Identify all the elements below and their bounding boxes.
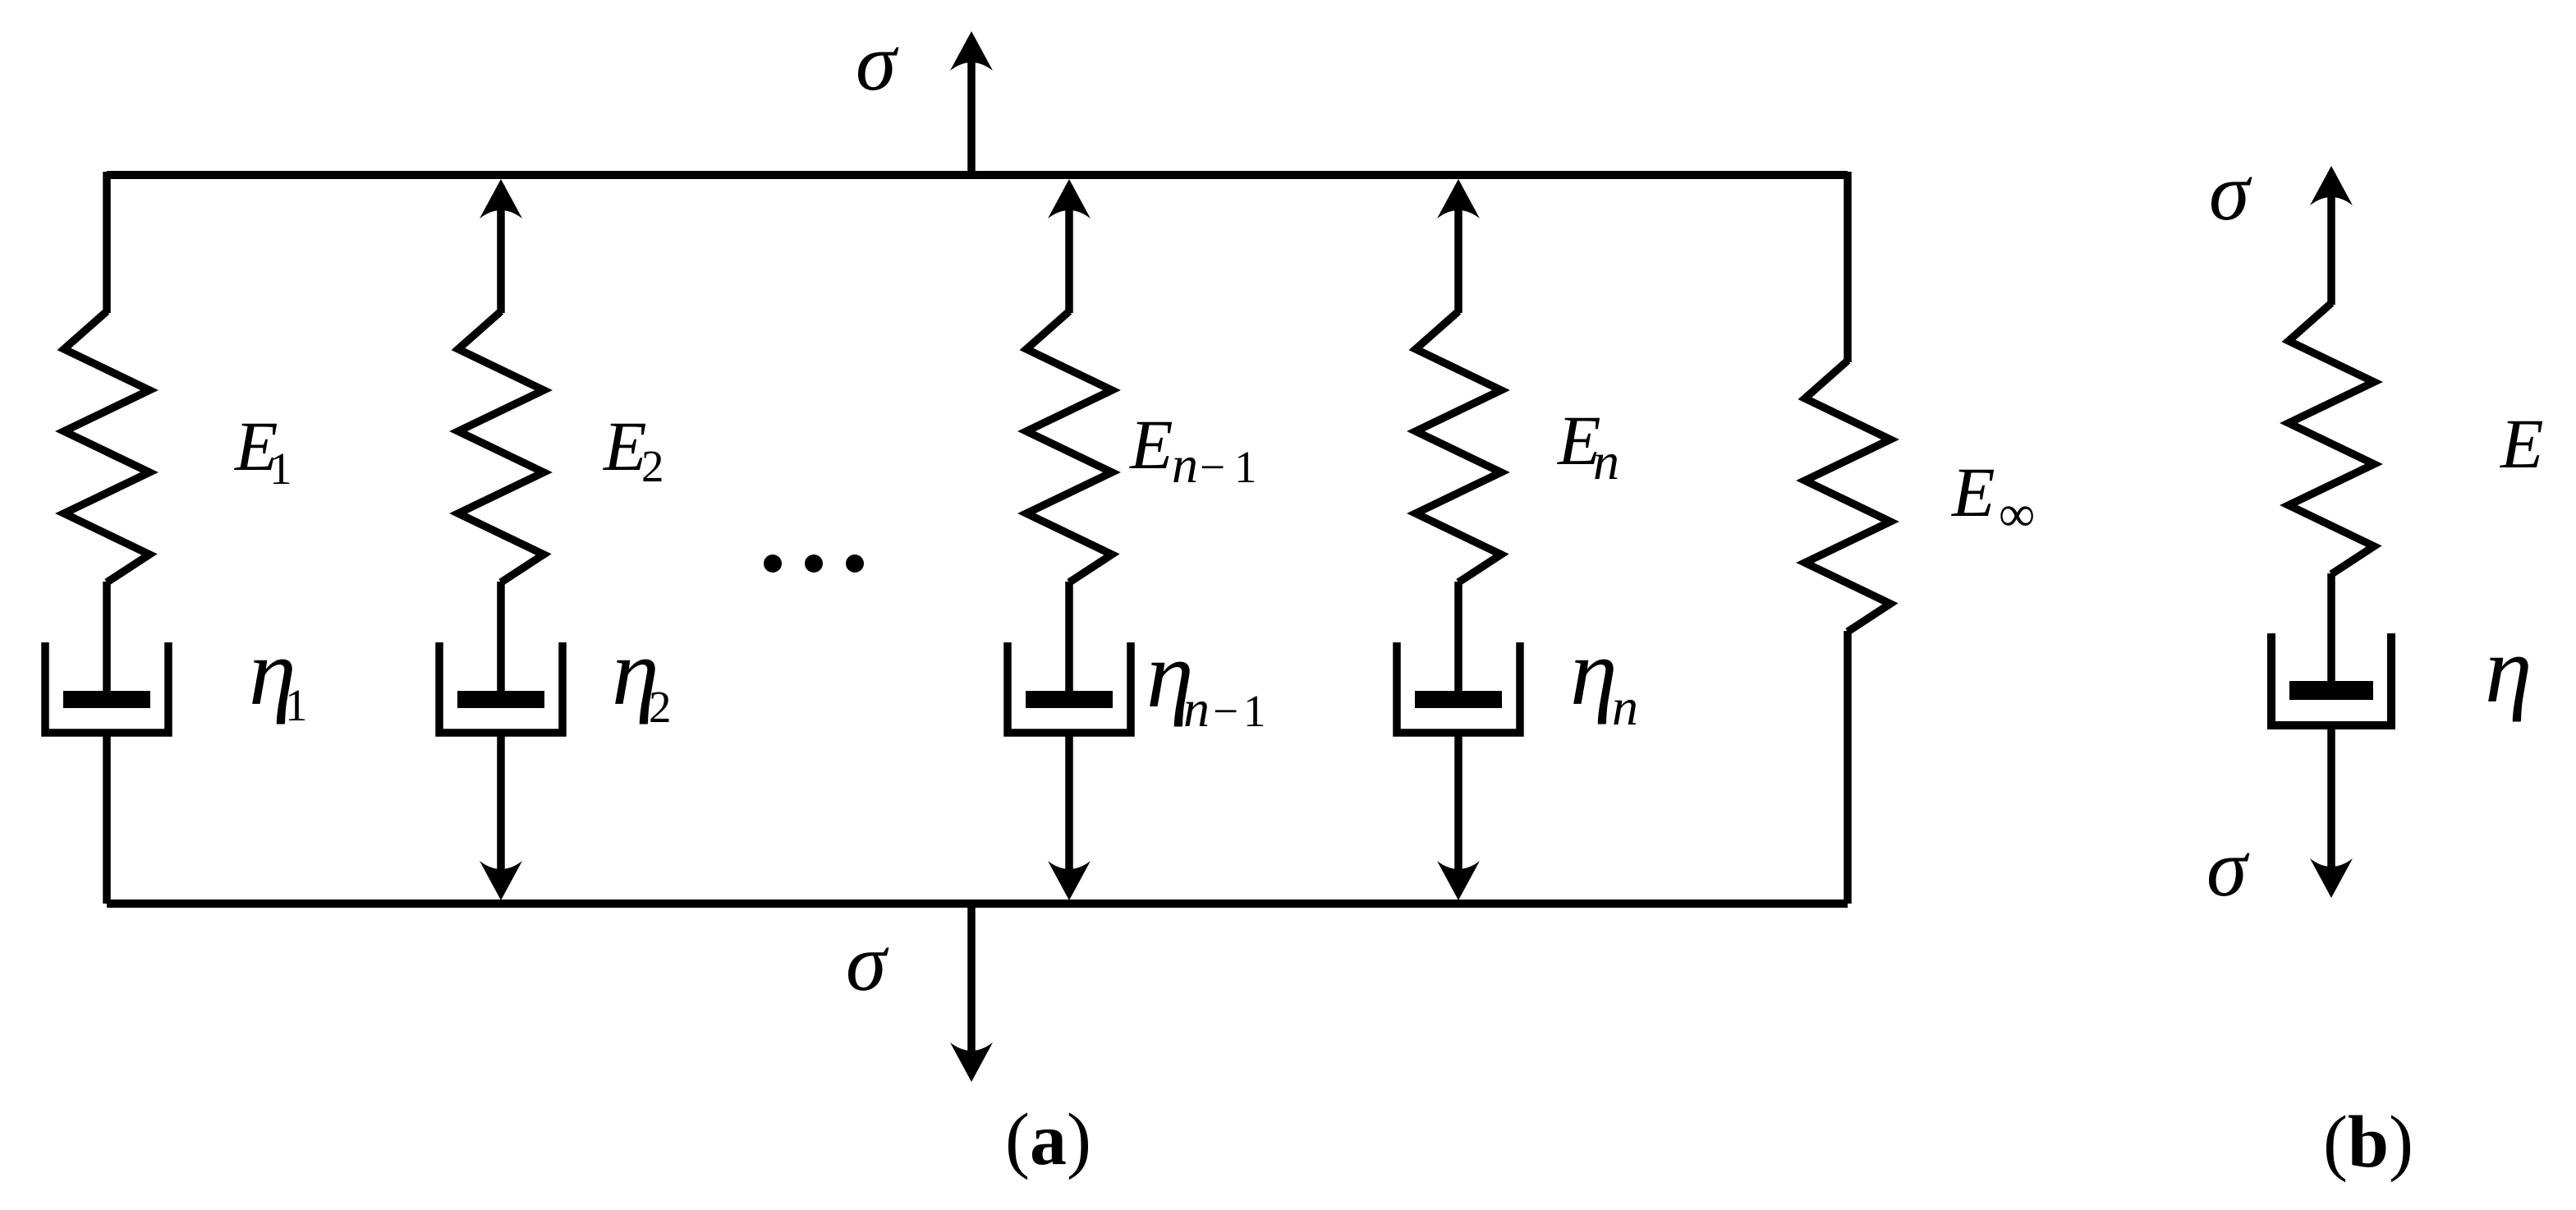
svg-text:E: E bbox=[602, 407, 647, 485]
svg-text:σ: σ bbox=[856, 16, 899, 108]
svg-text:n: n bbox=[1593, 432, 1619, 490]
svg-text:σ: σ bbox=[846, 917, 889, 1008]
svg-text:E: E bbox=[1950, 453, 1995, 531]
svg-text:η: η bbox=[2485, 618, 2532, 723]
svg-text:∞: ∞ bbox=[1999, 486, 2035, 542]
svg-text:(a): (a) bbox=[1005, 1099, 1091, 1180]
svg-text:n: n bbox=[1612, 678, 1638, 736]
svg-text:σ: σ bbox=[2209, 146, 2252, 237]
svg-text:η: η bbox=[1570, 620, 1618, 725]
svg-text:n: n bbox=[1172, 435, 1198, 494]
svg-text:n: n bbox=[1183, 679, 1210, 738]
svg-text:E: E bbox=[2499, 404, 2544, 483]
svg-text:−: − bbox=[1200, 442, 1225, 492]
svg-text:1: 1 bbox=[1243, 686, 1266, 736]
svg-text:E: E bbox=[1128, 405, 1173, 484]
svg-text:1: 1 bbox=[269, 444, 292, 494]
svg-text:1: 1 bbox=[285, 680, 308, 730]
svg-text:−: − bbox=[1213, 686, 1238, 736]
svg-text:2: 2 bbox=[649, 682, 672, 732]
svg-text:2: 2 bbox=[641, 441, 664, 491]
svg-text:(b): (b) bbox=[2323, 1102, 2413, 1183]
svg-text:1: 1 bbox=[1234, 442, 1257, 492]
svg-text:σ: σ bbox=[2206, 822, 2250, 913]
